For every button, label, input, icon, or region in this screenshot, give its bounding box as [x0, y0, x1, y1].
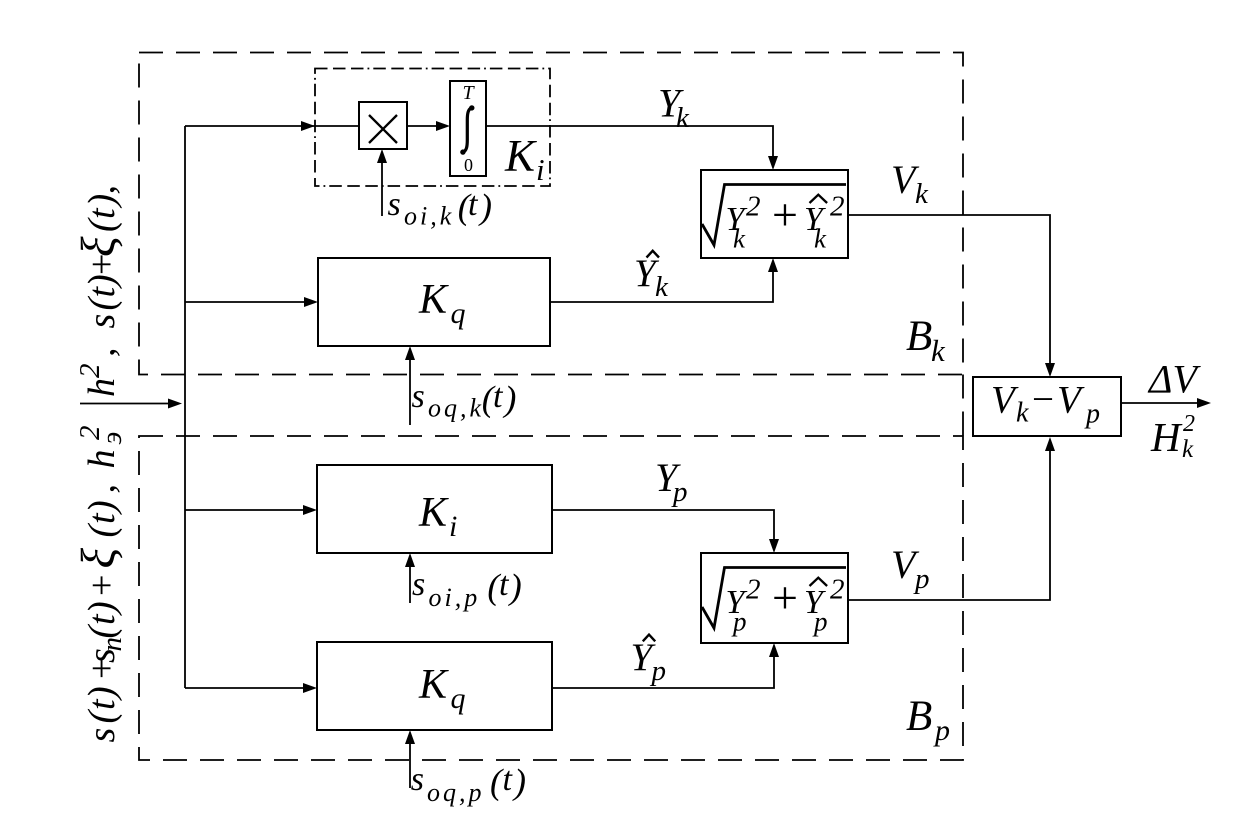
svg-text:oi,p: oi,p	[429, 583, 481, 612]
label input top rotated: h2, s(t)+xi(t),	[72, 185, 125, 397]
svg-text:K: K	[504, 131, 537, 181]
svg-text:B: B	[906, 313, 932, 360]
sqrt symbol top	[702, 185, 846, 246]
svg-text:s: s	[412, 378, 425, 415]
label input bottom rotated: s(t)+sn(t)+xi(t), h_e2	[72, 426, 128, 743]
wire to Kq bottom	[185, 687, 305, 689]
svg-text:t: t	[493, 378, 504, 415]
svg-text:V: V	[1057, 379, 1085, 422]
svg-text:): )	[81, 686, 123, 701]
svg-text:k: k	[931, 333, 946, 368]
arrowhead to Kq bottom	[303, 683, 317, 693]
svg-text:h: h	[81, 378, 123, 397]
svg-text:K: K	[418, 490, 449, 536]
svg-text:−: −	[1032, 378, 1054, 421]
arrowhead Yk down	[768, 156, 778, 170]
svg-text:p: p	[731, 607, 747, 637]
svg-text:k: k	[1182, 436, 1194, 463]
block Kq top	[318, 258, 550, 346]
arrowhead to Ki bottom	[303, 505, 317, 515]
svg-text:s: s	[388, 186, 401, 223]
svg-text:k: k	[814, 224, 827, 254]
wire output	[1121, 402, 1198, 404]
svg-text:p: p	[933, 714, 950, 747]
svg-text:T: T	[462, 82, 475, 104]
svg-text:ξ: ξ	[72, 548, 125, 569]
svg-text:H: H	[1150, 414, 1183, 460]
svg-text:t: t	[499, 566, 510, 603]
svg-text:2: 2	[74, 364, 106, 379]
svg-text:i: i	[536, 152, 545, 187]
wire s_oi_k	[381, 161, 383, 216]
svg-text:t: t	[468, 186, 479, 223]
block Kq bottom	[317, 642, 552, 730]
block Ki bottom	[317, 465, 552, 553]
svg-text:): )	[502, 379, 516, 419]
svg-text:): )	[81, 601, 123, 616]
svg-text:ξ: ξ	[72, 236, 125, 257]
svg-text:2: 2	[830, 191, 845, 223]
svg-text:p: p	[812, 607, 828, 637]
svg-text:i: i	[449, 510, 457, 543]
svg-text:p: p	[1084, 399, 1100, 430]
wire input	[80, 403, 170, 405]
block sqrt bottom	[701, 553, 848, 643]
svg-text:s: s	[411, 761, 424, 798]
svg-text:k: k	[1016, 398, 1029, 429]
sqrt symbol bottom	[702, 568, 846, 629]
dashed right-edge joiner	[962, 375, 964, 437]
label Vp	[891, 542, 930, 595]
svg-text:oq,p: oq,p	[427, 778, 485, 807]
integrator box	[450, 81, 486, 176]
svg-text:oq,k: oq,k	[428, 394, 484, 423]
arrowhead to integrator	[436, 121, 450, 131]
svg-text:p: p	[650, 655, 667, 687]
svg-text:h: h	[81, 450, 123, 469]
svg-text:2: 2	[1183, 411, 1195, 437]
label s_oi_p	[412, 566, 522, 612]
svg-text:p: p	[913, 563, 930, 595]
arrowhead to Kq top	[304, 297, 318, 307]
wire bus vertical	[184, 126, 186, 688]
label s_oq_p	[411, 761, 526, 807]
svg-text:,: ,	[81, 484, 123, 494]
svg-text:k: k	[915, 178, 929, 210]
sqrt content top	[726, 189, 845, 254]
svg-text:0: 0	[464, 155, 473, 175]
wire Vk	[848, 215, 1050, 365]
wire s_oq_k	[409, 358, 411, 425]
label Ki bottom	[418, 490, 457, 543]
wire multiplier to integrator	[407, 125, 438, 127]
label Hk2	[1150, 411, 1195, 463]
wire to multiplier	[185, 125, 359, 127]
block Vk-Vp	[973, 377, 1121, 436]
arrowhead to multiplier	[301, 121, 315, 131]
arrowhead output	[1197, 398, 1211, 408]
svg-text:k: k	[733, 224, 746, 254]
label s_oq_k	[412, 378, 517, 423]
label Kq top	[418, 277, 466, 330]
multiplier box	[359, 102, 407, 149]
arrowhead Yhat k up	[768, 258, 778, 272]
block sqrt top	[701, 170, 848, 258]
svg-text:K: K	[418, 662, 449, 708]
svg-text:2: 2	[746, 574, 761, 606]
arrowhead s_oi_k	[377, 149, 387, 163]
svg-text:+: +	[772, 189, 798, 240]
svg-text:): )	[81, 500, 123, 515]
label Ki dashdot	[504, 131, 545, 187]
label Vk	[891, 157, 929, 210]
svg-text:): )	[81, 274, 123, 289]
label Bk	[906, 313, 946, 368]
sqrt content bottom	[726, 572, 845, 637]
svg-text:,: ,	[81, 348, 123, 358]
arrowhead s_oq_k	[405, 346, 415, 360]
svg-text:t: t	[503, 761, 514, 798]
svg-text:): )	[81, 194, 123, 209]
label Kq bottom	[418, 662, 466, 715]
label s_oi_k	[388, 186, 493, 231]
wire Vp	[848, 449, 1050, 600]
wire s_oi_p	[409, 565, 411, 603]
label Yhat p	[631, 635, 667, 687]
svg-text:2: 2	[74, 426, 106, 441]
svg-text:s: s	[412, 566, 425, 603]
arrowhead Vk down	[1045, 363, 1055, 377]
svg-text:q: q	[451, 682, 466, 715]
svg-text:+: +	[81, 575, 123, 596]
wire to Ki bottom	[185, 509, 305, 511]
wire Yp	[552, 510, 774, 541]
wire to Kq top	[185, 301, 306, 303]
svg-text:): )	[508, 567, 522, 607]
label Yhat k	[634, 251, 669, 303]
svg-text:t: t	[81, 207, 123, 219]
label Bp	[906, 693, 950, 747]
arrowhead Yp down	[769, 539, 779, 553]
arrowhead input	[168, 399, 182, 409]
svg-text:2: 2	[746, 191, 761, 223]
arrowhead s_oq_p	[405, 730, 415, 744]
wire Yhat p	[552, 655, 774, 688]
label Yp	[655, 455, 688, 508]
svg-text:): )	[478, 187, 492, 227]
svg-text:k: k	[676, 102, 690, 134]
wire Yk	[486, 126, 773, 158]
svg-text:B: B	[906, 693, 932, 740]
svg-text:oi,k: oi,k	[404, 202, 454, 231]
dashed box Bk	[139, 53, 963, 375]
svg-text:q: q	[451, 297, 466, 330]
dashed box Bp	[139, 436, 963, 760]
svg-text:,: ,	[81, 185, 123, 195]
integrator symbol	[460, 82, 475, 175]
arrowhead Vp up	[1045, 437, 1055, 451]
wire Yhat k	[550, 270, 773, 302]
svg-text:V: V	[991, 379, 1019, 422]
label Yk	[658, 81, 690, 135]
svg-text:ΔV: ΔV	[1147, 357, 1201, 402]
label Vk-Vp box	[991, 378, 1100, 430]
wire s_oq_p	[409, 742, 411, 788]
svg-text:s: s	[81, 314, 123, 329]
multiplier X symbol	[369, 115, 397, 143]
svg-text:K: K	[418, 277, 449, 323]
svg-text:+: +	[772, 572, 798, 623]
svg-text:p: p	[671, 476, 688, 508]
svg-text:s: s	[81, 728, 123, 743]
svg-text:): )	[512, 762, 526, 802]
arrowhead s_oi_p	[405, 553, 415, 567]
dash-dot box Ki	[315, 69, 550, 187]
svg-text:2: 2	[830, 574, 845, 606]
svg-text:k: k	[655, 271, 669, 303]
arrowhead Yhat p up	[769, 643, 779, 657]
